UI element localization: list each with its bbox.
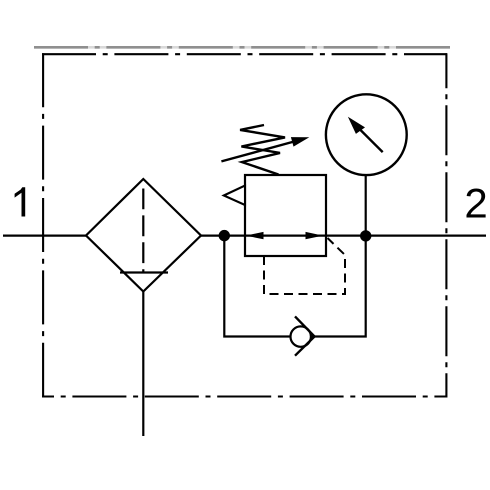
spring xyxy=(240,125,285,175)
node: junction filter outlet xyxy=(219,230,230,241)
port label 1 xyxy=(15,187,26,216)
wire: drain line xyxy=(142,292,144,437)
node: junction gauge/outlet xyxy=(360,230,371,241)
regulator R1 body xyxy=(245,175,326,256)
regulator flow arrowhead right xyxy=(306,232,324,239)
filter F1 (diamond) xyxy=(86,179,201,292)
wire: main flow line 1 to 2 xyxy=(3,235,486,237)
gauge needle xyxy=(358,128,383,153)
enclosure dash-dot border top xyxy=(42,53,447,55)
spring adjustment arrow xyxy=(221,141,295,161)
enclosure dash-dot border left xyxy=(42,53,44,397)
regulator flow arrowhead left xyxy=(246,232,264,239)
gray table rule above enclosure xyxy=(34,46,450,49)
wire: bypass U line xyxy=(224,236,365,337)
regulator adjustment triangle xyxy=(224,186,245,206)
pilot line (dashed) xyxy=(264,238,345,294)
wire: gauge branch xyxy=(365,175,367,236)
check valve seat xyxy=(295,316,315,336)
filter condensate chord xyxy=(120,271,168,273)
enclosure dash-dot border bottom xyxy=(42,395,447,397)
svg-text:2: 2 xyxy=(464,179,487,226)
pressure gauge G1 xyxy=(326,94,407,175)
check valve V1 xyxy=(291,326,311,346)
enclosure dash-dot border right xyxy=(445,53,447,397)
filter centerline (dashed) xyxy=(142,189,144,273)
